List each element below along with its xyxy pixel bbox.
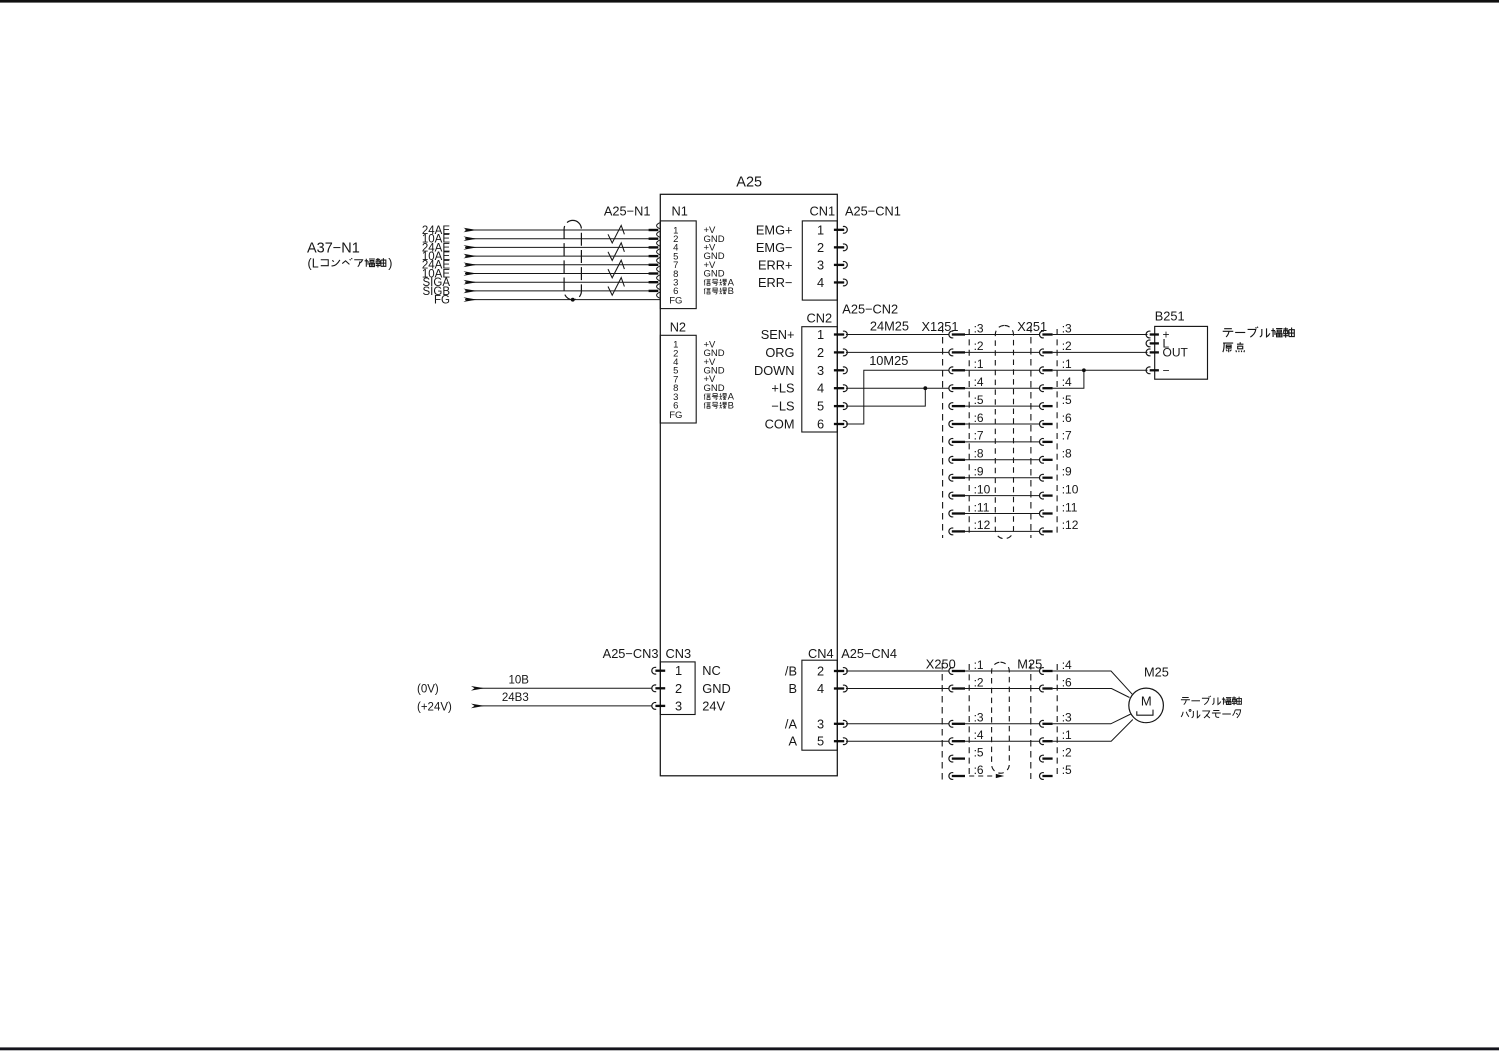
X251 pin :5 contact — [1040, 403, 1044, 410]
wire X251:3 to B251 + — [1053, 334, 1148, 336]
label signal line B (N1) — [704, 288, 711, 294]
M25 connector pin :3 contact — [1040, 720, 1044, 727]
svg-text:A25−CN3: A25−CN3 — [603, 646, 659, 661]
CN2 pin 5 contact — [834, 405, 844, 407]
svg-text:6: 6 — [817, 417, 824, 432]
cable wire X1251:12 to X251:12 — [965, 530, 1040, 532]
svg-text:5: 5 — [817, 399, 824, 414]
annotation table width axis (motor) — [1181, 698, 1190, 705]
svg-text:24V: 24V — [702, 698, 725, 713]
svg-text::6: :6 — [974, 411, 984, 425]
svg-text::8: :8 — [1062, 447, 1072, 461]
X251 pin :12 contact — [1040, 528, 1044, 535]
CN2 pin 3 contact — [834, 369, 844, 371]
svg-text::10: :10 — [974, 482, 991, 496]
svg-text:24M25: 24M25 — [870, 319, 909, 334]
sensor B251 box — [1155, 309, 1208, 379]
cable shield (X1251-X251 cable) — [995, 325, 1013, 538]
svg-text:GND: GND — [702, 681, 730, 696]
CN4 pin 4 contact — [834, 687, 844, 689]
cable wire X1251:3 to X251:3 — [965, 334, 1040, 336]
cable wire X1251:7 to X251:7 — [965, 441, 1040, 443]
svg-text:3: 3 — [817, 363, 824, 378]
X1251 pin :3 contact — [949, 331, 953, 338]
svg-text:A25−N1: A25−N1 — [604, 204, 651, 219]
annotation origin — [1223, 343, 1233, 352]
CN2 pin 4 contact — [834, 387, 844, 389]
X1251 pin :10 contact — [949, 492, 953, 499]
wire SIGA (A37-N1 to N1 pin row 7) — [465, 281, 652, 283]
svg-text:/B: /B — [785, 664, 797, 679]
CN2 pin 2 contact — [834, 351, 844, 353]
svg-text:B: B — [788, 681, 797, 696]
cable wire X1251:10 to X251:10 — [965, 495, 1040, 497]
svg-text:2: 2 — [817, 345, 824, 360]
svg-text:FG: FG — [669, 296, 682, 307]
svg-text:5: 5 — [817, 734, 824, 749]
wire 24AE (A37-N1 to N1 pin row 5) — [465, 264, 652, 266]
X1251 pin :11 contact — [949, 510, 953, 517]
wire 10M25 (CN2.6 COM to X1251:1) — [846, 370, 949, 424]
CN4 pin 2 contact — [834, 670, 844, 672]
X1251 pin :7 contact — [949, 439, 953, 446]
svg-text:L: L — [312, 257, 319, 271]
M25 connector pin :6 contact — [1040, 685, 1044, 692]
svg-text::11: :11 — [1062, 500, 1078, 514]
svg-text:−: − — [1163, 364, 1170, 378]
svg-text::2: :2 — [1062, 339, 1072, 353]
X251 pin :2 contact — [1040, 349, 1044, 356]
svg-text:A25−CN1: A25−CN1 — [845, 204, 901, 219]
X1251 pin :12 contact — [949, 528, 953, 535]
X251 pin :11 contact — [1040, 510, 1044, 517]
CN4 pin 3 contact — [834, 723, 844, 725]
X250 pin :5 contact — [949, 755, 953, 762]
X251 pin :10 contact — [1040, 492, 1044, 499]
svg-text::3: :3 — [974, 711, 984, 725]
svg-text:A25−CN4: A25−CN4 — [841, 646, 897, 661]
cable wire X1251:8 to X251:8 — [965, 459, 1040, 461]
svg-text:1: 1 — [675, 663, 682, 678]
svg-text::8: :8 — [974, 447, 984, 461]
cable wire X250:1 to M25 connector — [965, 670, 1040, 672]
svg-text:COM: COM — [765, 417, 795, 432]
cable wire X250:4 to M25 connector — [965, 740, 1040, 742]
M25 connector pin :1 contact — [1040, 738, 1044, 745]
svg-text:(0V): (0V) — [417, 684, 439, 696]
CN2 pin 1 contact — [834, 333, 844, 335]
X250 pin :3 contact — [949, 720, 953, 727]
connector X250 — [926, 656, 969, 784]
svg-text:): ) — [388, 257, 392, 271]
svg-text:B: B — [728, 400, 734, 411]
motor M25 circle — [1129, 688, 1164, 723]
connector M25 (cable side) — [1017, 656, 1057, 779]
svg-text:4: 4 — [817, 681, 824, 696]
svg-text::4: :4 — [1062, 375, 1072, 389]
svg-text:2: 2 — [817, 240, 824, 255]
wire 10AE (A37-N1 to N1 pin row 2) — [465, 238, 652, 240]
svg-text:3: 3 — [817, 716, 824, 731]
svg-text:ERR+: ERR+ — [758, 257, 793, 272]
wire X251:1 to B251 - — [1053, 369, 1148, 371]
CN1 pin 3 contact — [834, 264, 844, 266]
svg-text::3: :3 — [974, 321, 984, 335]
cable wire X1251:2 to X251:2 — [965, 351, 1040, 353]
connector X251 — [1017, 319, 1057, 538]
svg-text::9: :9 — [1062, 465, 1072, 479]
svg-text:−LS: −LS — [771, 399, 794, 414]
svg-text:SEN+: SEN+ — [761, 327, 795, 342]
M25 connector pin :5 contact — [1040, 773, 1044, 780]
CN4 pin 5 contact — [834, 740, 844, 742]
border bottom bar — [0, 1047, 1499, 1050]
CN3 pin 3 contact — [655, 705, 665, 707]
svg-text:A25: A25 — [736, 174, 762, 190]
svg-text::1: :1 — [1062, 728, 1072, 742]
svg-text::5: :5 — [974, 745, 984, 759]
M25 connector pin :2 contact — [1040, 755, 1044, 762]
X1251 pin :6 contact — [949, 421, 953, 428]
wire 24AE (A37-N1 to N1 pin row 1) — [465, 229, 652, 231]
wire X251:2 to B251 OUT — [1053, 351, 1148, 353]
X250 pin :6 contact — [949, 773, 953, 780]
cable wire X1251:11 to X251:11 — [965, 513, 1040, 515]
wire M25:6 to motor — [1053, 689, 1130, 698]
label signal line B (N2) — [704, 402, 711, 408]
wire SIGB (A37-N1 to N1 pin row 8) — [465, 290, 652, 292]
svg-text:1: 1 — [817, 222, 824, 237]
twisted pair mark (pair 24AE/10AE) — [608, 243, 624, 261]
svg-text:GND: GND — [704, 269, 725, 280]
svg-text::5: :5 — [974, 393, 984, 407]
svg-text:M25: M25 — [1144, 665, 1169, 680]
svg-text:N2: N2 — [670, 319, 686, 334]
wire CN2.5 -LS tie to +LS line — [846, 388, 925, 406]
svg-text:M25: M25 — [1017, 656, 1042, 671]
svg-text:NC: NC — [702, 663, 720, 678]
svg-text::11: :11 — [974, 500, 990, 514]
border top bar — [0, 0, 1499, 3]
svg-text:CN2: CN2 — [807, 311, 833, 326]
svg-text::7: :7 — [974, 429, 984, 443]
CN1 pin 2 contact — [834, 246, 844, 248]
svg-text:GND: GND — [704, 383, 725, 394]
svg-text::12: :12 — [1062, 518, 1079, 532]
svg-text:ERR−: ERR− — [758, 275, 793, 290]
X1251 pin :8 contact — [949, 456, 953, 463]
X251 pin :3 contact — [1040, 331, 1044, 338]
wire M25:1 to motor — [1053, 720, 1133, 742]
X250 pin :1 contact — [949, 668, 953, 675]
svg-text::5: :5 — [1062, 393, 1072, 407]
X1251 pin :1 contact — [949, 367, 953, 374]
svg-text:CN3: CN3 — [666, 646, 692, 661]
annotation table width axis (B251) — [1223, 329, 1234, 337]
X1251 pin :4 contact — [949, 385, 953, 392]
CN2 pin 6 contact — [834, 423, 844, 425]
annotation pulse motor — [1181, 709, 1191, 717]
svg-text:2: 2 — [675, 681, 682, 696]
connector N2 — [660, 319, 724, 423]
svg-text::4: :4 — [1062, 658, 1072, 672]
svg-text::6: :6 — [1062, 411, 1072, 425]
connector N1 — [660, 204, 724, 309]
svg-text:DOWN: DOWN — [754, 363, 795, 378]
svg-text:A37−N1: A37−N1 — [307, 240, 360, 256]
svg-text::12: :12 — [974, 518, 991, 532]
cable wire X250:3 to M25 connector — [965, 723, 1040, 725]
B251 pin minus — [1150, 369, 1159, 371]
svg-text:FG: FG — [669, 410, 682, 421]
svg-text:/A: /A — [785, 716, 798, 731]
svg-text:B: B — [728, 286, 734, 297]
wire 24AE (A37-N1 to N1 pin row 3) — [465, 246, 652, 248]
X250 pin :2 contact — [949, 685, 953, 692]
junction dot shield-to-FG — [571, 298, 575, 302]
X251 pin :9 contact — [1040, 474, 1044, 481]
twisted pair mark (pair 24AE/10AE) — [608, 225, 624, 243]
svg-text:X251: X251 — [1017, 319, 1047, 334]
cable shield (X250-M25 cable) — [992, 662, 1010, 773]
wire CN2.2 ORG to X1251:2 — [846, 351, 949, 353]
svg-text::1: :1 — [1062, 357, 1072, 371]
CN1 pin 1 contact — [834, 229, 844, 231]
CN3 pin 1 contact — [655, 670, 665, 672]
connector CN3 — [603, 646, 731, 714]
svg-text::7: :7 — [1062, 429, 1072, 443]
N1 crimp contacts — [649, 223, 660, 299]
svg-text::4: :4 — [974, 375, 984, 389]
svg-text::6: :6 — [1062, 675, 1072, 689]
wire CN4 row 3 to X250 — [846, 723, 949, 725]
connector CN2 — [802, 311, 838, 432]
junction dot X251:1/:4 — [1082, 368, 1086, 372]
svg-text:24B3: 24B3 — [502, 692, 529, 704]
B251 pin L — [1150, 342, 1159, 344]
X250 pin :4 contact — [949, 738, 953, 745]
svg-text:EMG+: EMG+ — [756, 222, 793, 237]
wire CN2.4 +LS to X1251:4 — [846, 387, 949, 389]
twisted pair mark (pair SIGA/SIGB) — [608, 278, 624, 296]
shield drain dashed lead with arrow — [969, 775, 995, 777]
svg-text:FG: FG — [434, 295, 450, 307]
svg-text:B251: B251 — [1155, 309, 1185, 324]
cable wire X250:2 to M25 connector — [965, 688, 1040, 690]
wire 24M25 (CN2.1 SEN+ to X1251:3) — [846, 334, 949, 336]
cable wire X1251:9 to X251:9 — [965, 477, 1040, 479]
wire M25:4 to motor — [1053, 671, 1133, 694]
cable wire X1251:4 to X251:4 — [965, 387, 1040, 389]
svg-text:N1: N1 — [672, 204, 688, 219]
wire 10B (0V to CN3.2) — [475, 687, 652, 689]
svg-text:1: 1 — [817, 327, 824, 342]
wire CN4 row 4 to X250 — [846, 740, 949, 742]
CN3 pin 2 contact — [655, 687, 665, 689]
svg-text::10: :10 — [1062, 482, 1079, 496]
wire X251:4 tie to minus line — [1053, 370, 1084, 388]
M25 connector pin :4 contact — [1040, 668, 1044, 675]
svg-text:4: 4 — [817, 275, 824, 290]
svg-text::2: :2 — [974, 675, 984, 689]
svg-text:A25−CN2: A25−CN2 — [842, 301, 898, 316]
wire FG (A37-N1 to N1 pin row 9) — [465, 299, 660, 301]
svg-text:OUT: OUT — [1163, 346, 1189, 360]
unit A25 box — [660, 194, 837, 776]
B251 pin OUT — [1150, 351, 1159, 353]
cable wire X1251:6 to X251:6 — [965, 423, 1040, 425]
svg-text::1: :1 — [974, 357, 984, 371]
twisted pair mark (pair 24AE/10AE) — [608, 260, 624, 278]
svg-text:CN1: CN1 — [810, 204, 836, 219]
X1251 pin :5 contact — [949, 403, 953, 410]
svg-text:EMG−: EMG− — [756, 240, 793, 255]
svg-text::3: :3 — [1062, 321, 1072, 335]
svg-text::1: :1 — [974, 658, 984, 672]
svg-text:3: 3 — [817, 257, 824, 272]
svg-text:X250: X250 — [926, 656, 956, 671]
svg-text:10M25: 10M25 — [869, 353, 908, 368]
label signal line A (N2) — [704, 394, 711, 400]
svg-text::2: :2 — [1062, 745, 1072, 759]
wire 10AE (A37-N1 to N1 pin row 6) — [465, 273, 652, 275]
svg-text::3: :3 — [1062, 711, 1072, 725]
svg-text:3: 3 — [675, 698, 682, 713]
svg-text::2: :2 — [974, 339, 984, 353]
wire 24B3 (+24V to CN3.3) — [475, 705, 652, 707]
cable wire X1251:5 to X251:5 — [965, 405, 1040, 407]
svg-text::9: :9 — [974, 465, 984, 479]
svg-text:2: 2 — [817, 664, 824, 679]
label signal line A (N1) — [704, 279, 711, 285]
svg-text::4: :4 — [974, 728, 984, 742]
X251 pin :8 contact — [1040, 456, 1044, 463]
cable wire X1251:1 to X251:1 — [965, 369, 1040, 371]
X251 pin :1 contact — [1040, 367, 1044, 374]
connector X1251 — [922, 319, 970, 538]
X251 pin :6 contact — [1040, 421, 1044, 428]
svg-text:A: A — [788, 734, 797, 749]
B251 pin plus — [1150, 333, 1159, 335]
cable shield (A37-N1 cable) — [564, 220, 581, 299]
svg-text:CN4: CN4 — [808, 646, 834, 661]
X1251 pin :2 contact — [949, 349, 953, 356]
svg-text:4: 4 — [817, 381, 824, 396]
pulse symbol — [1137, 710, 1153, 716]
X1251 pin :9 contact — [949, 474, 953, 481]
svg-text:10B: 10B — [509, 675, 530, 687]
wire CN4 row 2 to X250 — [846, 688, 949, 690]
svg-text:+LS: +LS — [771, 381, 794, 396]
wire M25:3 to motor — [1053, 714, 1131, 724]
junction dot +LS/-LS — [923, 386, 927, 390]
svg-text:M: M — [1141, 694, 1152, 709]
connector CN4 — [802, 646, 837, 750]
connector CN1 — [802, 204, 837, 300]
svg-text::6: :6 — [974, 763, 984, 777]
svg-text::5: :5 — [1062, 763, 1072, 777]
svg-text:ORG: ORG — [765, 345, 794, 360]
X251 pin :4 contact — [1040, 385, 1044, 392]
wire CN4 row 1 to X250 — [846, 670, 949, 672]
wire 10AE (A37-N1 to N1 pin row 4) — [465, 255, 652, 257]
svg-text:(+24V): (+24V) — [417, 701, 452, 713]
CN1 pin 4 contact — [834, 281, 844, 283]
X251 pin :7 contact — [1040, 439, 1044, 446]
